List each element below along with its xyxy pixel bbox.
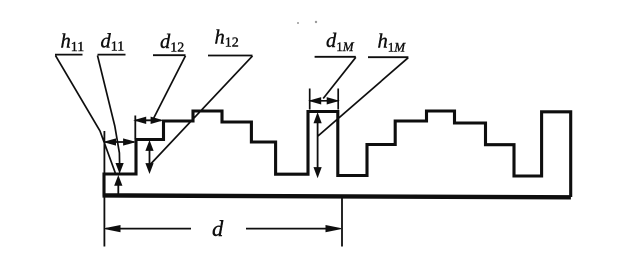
svg-text:d12: d12 xyxy=(160,31,184,55)
d dimension line left part xyxy=(106,228,191,230)
d1M label underline xyxy=(315,56,356,58)
svg-text:d11: d11 xyxy=(101,30,125,54)
d11 label underline xyxy=(98,54,126,56)
speck top xyxy=(297,22,299,24)
h11 lower arrow pointing up under first tread xyxy=(115,176,122,185)
d11 leader line xyxy=(98,56,120,164)
d dimension left arrowhead xyxy=(105,226,120,232)
d11 right arrowhead xyxy=(124,139,135,145)
d1M dimension line xyxy=(310,100,338,102)
stepped profile outline xyxy=(104,111,571,197)
svg-text:h12: h12 xyxy=(215,26,239,50)
d1M left extension line xyxy=(309,89,311,110)
d12 leader line xyxy=(153,56,186,120)
extension line right of d xyxy=(341,198,343,247)
d12 right arrowhead xyxy=(151,117,162,123)
d11 left arrowhead xyxy=(105,139,116,145)
svg-text:d1M: d1M xyxy=(326,30,355,54)
h11 label underline xyxy=(55,54,83,56)
h12 leader line xyxy=(151,56,253,164)
h12 label underline xyxy=(208,55,253,57)
h12 down arrowhead xyxy=(146,164,153,173)
d dimension right arrowhead xyxy=(326,226,341,232)
h12 up arrowhead xyxy=(146,141,153,150)
svg-text:d: d xyxy=(212,216,224,241)
h1M label underline xyxy=(368,56,408,58)
d12 left arrowhead xyxy=(135,117,146,123)
d12 label underline xyxy=(153,54,186,56)
h11 upper arrow pointing down at first tread xyxy=(116,164,123,173)
extension line left of d and d11 xyxy=(103,131,105,247)
h11 leader line xyxy=(56,56,116,174)
d12 dimension line xyxy=(136,119,162,121)
d1M right arrowhead xyxy=(327,98,338,104)
h1M down arrowhead xyxy=(314,168,321,177)
h1M arrow shaft xyxy=(317,117,319,173)
d1M right extension line xyxy=(337,89,339,110)
d12 extension line xyxy=(134,116,136,140)
svg-text:h11: h11 xyxy=(61,31,85,55)
d1M left arrowhead xyxy=(310,98,321,104)
base slab line xyxy=(103,195,571,197)
d1M leader line xyxy=(323,57,356,98)
h12 arrow shaft xyxy=(149,145,151,169)
h11 lower arrow shaft xyxy=(117,185,119,194)
speck top 2 xyxy=(315,21,317,23)
d dimension line right part xyxy=(246,228,339,230)
h1M up arrowhead xyxy=(314,114,321,123)
svg-text:h1M: h1M xyxy=(378,31,407,55)
h1M leader line xyxy=(318,58,408,136)
d11 dimension line xyxy=(106,141,135,143)
